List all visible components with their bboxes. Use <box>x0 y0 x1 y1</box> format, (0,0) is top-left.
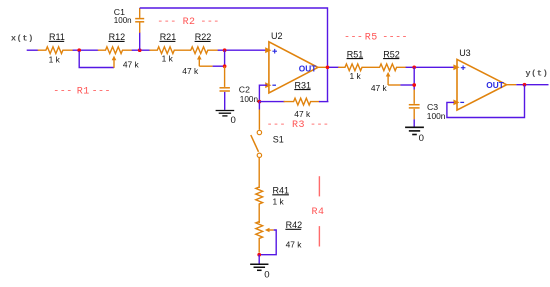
svg-text:U2: U2 <box>271 31 283 41</box>
node U2 output junction <box>326 65 330 69</box>
op-amp U3 <box>453 48 506 110</box>
svg-text:R52: R52 <box>383 49 400 59</box>
svg-text:1 k: 1 k <box>49 54 61 64</box>
svg-text:R41: R41 <box>273 185 290 195</box>
svg-text:R1: R1 <box>77 86 90 97</box>
svg-text:OUT: OUT <box>486 80 504 90</box>
svg-text:R2: R2 <box>183 17 196 28</box>
capacitor C2 <box>224 86 226 88</box>
U2 - input pin arrow <box>265 82 271 88</box>
svg-text:----: ---- <box>382 33 408 44</box>
svg-text:47 k: 47 k <box>371 83 388 93</box>
svg-text:R21: R21 <box>160 32 177 42</box>
svg-text:47 k: 47 k <box>123 60 140 70</box>
svg-text:y(t): y(t) <box>525 68 548 78</box>
capacitor C1 <box>139 8 141 18</box>
resistor R31 feedback <box>259 101 284 103</box>
wire R22 to U2 + input <box>218 49 268 51</box>
wire top feedback rail C1 to U2 output <box>140 8 328 102</box>
wire node B up to C1 <box>139 32 141 50</box>
svg-text:0: 0 <box>231 115 236 126</box>
node C junction <box>223 48 227 52</box>
U3 + input pin arrow <box>453 64 459 70</box>
svg-text:---: --- <box>267 120 286 131</box>
svg-text:100n: 100n <box>114 16 132 25</box>
svg-text:100n: 100n <box>427 111 446 121</box>
wire R42 to ground <box>258 255 260 264</box>
wire R11 to R12 <box>73 49 99 51</box>
node D junction <box>412 65 416 69</box>
ground under C3 <box>405 126 424 128</box>
svg-text:1 k: 1 k <box>350 71 362 81</box>
svg-text:x(t): x(t) <box>11 34 34 44</box>
U3 - input pin arrow <box>453 100 459 106</box>
node y(t) output junction <box>523 83 527 87</box>
red dashed label R4 vertical <box>312 176 325 246</box>
wire input to R11 <box>27 49 39 51</box>
resistor R42 potentiometer <box>256 222 263 253</box>
switch S1 <box>251 130 284 157</box>
wire U3 follower feedback loop <box>447 85 525 118</box>
svg-text:---: --- <box>92 86 111 97</box>
svg-text:---: --- <box>200 17 219 28</box>
node B junction <box>138 48 142 52</box>
svg-text:C2: C2 <box>239 84 250 94</box>
wire U2 output to node <box>318 66 326 68</box>
wire U2 out to R51 <box>329 66 339 68</box>
wire R22 wiper to node C <box>198 59 200 66</box>
wire R52 to U3 + input <box>406 66 454 68</box>
node A junction <box>77 48 81 52</box>
resistor R21 <box>150 47 192 54</box>
svg-text:1 k: 1 k <box>273 196 285 206</box>
wire S1 to R41 <box>258 158 260 188</box>
resistor R52 potentiometer <box>380 64 407 71</box>
wire node D down to C3 <box>413 67 415 89</box>
svg-text:1 k: 1 k <box>162 54 174 64</box>
resistor R51 <box>338 64 380 71</box>
U2 + input pin arrow <box>265 47 271 53</box>
svg-text:OUT: OUT <box>299 63 317 73</box>
svg-text:0: 0 <box>419 133 424 144</box>
svg-text:47 k: 47 k <box>294 109 311 119</box>
node R42 bottom junction <box>257 253 261 257</box>
svg-text:R51: R51 <box>347 49 364 59</box>
svg-text:S1: S1 <box>273 134 284 144</box>
svg-text:47 k: 47 k <box>182 66 199 76</box>
node U2 feedback junction <box>258 100 262 104</box>
wire S1 branch from feedback node <box>258 102 260 110</box>
resistor R22 potentiometer <box>191 47 219 54</box>
wire node C down to C2 <box>224 50 226 66</box>
svg-text:0: 0 <box>264 270 269 281</box>
svg-text:R22: R22 <box>195 32 212 42</box>
wire R12 wiper loop <box>79 51 114 68</box>
resistor R12 potentiometer <box>98 47 133 54</box>
node C3 top junction <box>412 83 416 87</box>
wire R12 to R21 <box>132 49 151 51</box>
wire R42 wiper loop <box>265 228 270 233</box>
ground under R42 <box>250 263 268 265</box>
svg-text:R11: R11 <box>49 32 65 42</box>
svg-text:R3: R3 <box>292 120 305 131</box>
svg-text:---: --- <box>310 120 329 131</box>
wire U3 output <box>506 84 516 86</box>
svg-text:R5: R5 <box>365 33 378 44</box>
resistor R41 <box>256 187 263 223</box>
svg-text:---: --- <box>344 33 363 44</box>
svg-text:U3: U3 <box>459 48 471 58</box>
node C2 top junction <box>223 64 227 68</box>
wire U2 - input branch <box>259 85 267 101</box>
svg-text:---: --- <box>157 17 176 28</box>
wire R52 wiper to node D <box>387 76 389 85</box>
ground under C2 <box>216 110 235 112</box>
svg-text:---: --- <box>53 86 72 97</box>
capacitor C3 <box>413 103 415 105</box>
svg-text:R12: R12 <box>109 32 126 42</box>
resistor R11 <box>38 47 74 54</box>
svg-text:R4: R4 <box>312 207 325 218</box>
op-amp U2 <box>265 31 318 93</box>
svg-text:47 k: 47 k <box>286 240 303 250</box>
svg-text:100n: 100n <box>240 95 259 104</box>
svg-text:R42: R42 <box>286 220 303 230</box>
svg-text:R31: R31 <box>295 80 312 90</box>
